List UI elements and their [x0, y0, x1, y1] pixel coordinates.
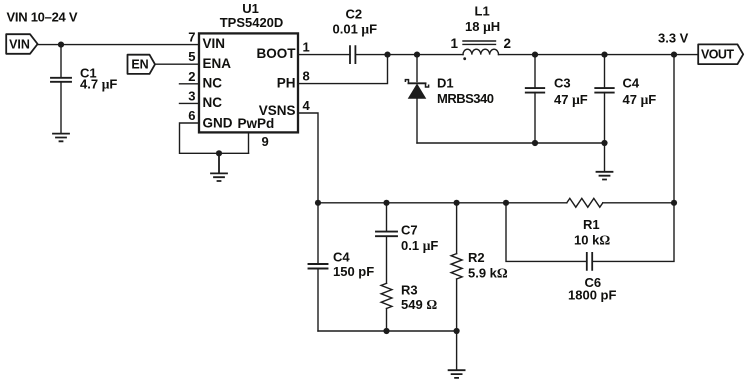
node VOUT junction	[671, 52, 677, 58]
wire VIN to pin 7	[38, 44, 199, 46]
node GND/PwPd junction	[216, 150, 222, 156]
svg-text:0.01 μF: 0.01 μF	[333, 21, 378, 36]
svg-text:C2: C2	[346, 6, 363, 21]
svg-text:PwPd: PwPd	[238, 116, 275, 131]
node rail right end	[671, 200, 677, 206]
node D1 junction	[414, 52, 420, 58]
resistor R3	[381, 283, 392, 308]
pin name VIN	[203, 36, 226, 51]
wire EN to pin 5	[155, 63, 199, 65]
svg-text:5: 5	[188, 49, 195, 64]
svg-text:4: 4	[303, 98, 311, 113]
svg-text:VIN 10–24 V: VIN 10–24 V	[7, 10, 78, 25]
node C4 bottom	[601, 140, 607, 146]
pin stub pin 3 NC	[180, 102, 200, 104]
wire L1 to VOUT	[499, 54, 699, 56]
pin number 4	[303, 98, 311, 113]
node C3 bottom	[532, 140, 538, 146]
inductor L1	[463, 41, 499, 55]
svg-text:VOUT: VOUT	[701, 48, 734, 62]
svg-text:BOOT: BOOT	[257, 46, 297, 61]
wire C2 to inductor	[355, 54, 463, 56]
pin name PwPd	[238, 116, 275, 131]
net label 3.3 V	[658, 30, 689, 45]
capacitor C4 (47uF)	[595, 55, 613, 143]
connector VOUT	[698, 44, 743, 64]
pin number 9	[262, 134, 269, 149]
svg-text:549 Ω: 549 Ω	[401, 297, 437, 312]
pin name ENA	[203, 56, 232, 71]
svg-text:R1: R1	[583, 217, 600, 232]
value label C7 0.1 uF	[401, 223, 438, 253]
wire feedback bottom rail	[318, 330, 457, 332]
svg-text:U1: U1	[242, 1, 259, 16]
pin name NC (pin 2)	[203, 76, 223, 91]
pin number 6	[188, 108, 195, 123]
pin name PH	[277, 75, 296, 90]
connector VIN	[6, 34, 37, 54]
node R3 bottom	[383, 328, 389, 334]
wire PH to junction	[298, 55, 388, 84]
svg-text:5.9 kΩ: 5.9 kΩ	[468, 265, 508, 280]
svg-text:1: 1	[303, 40, 310, 55]
wire C4 bottom to ground	[604, 143, 606, 172]
svg-text:C7: C7	[401, 223, 418, 238]
node BOOT/PH junction	[384, 52, 390, 58]
value label C4 150 pF	[333, 249, 374, 279]
value label C3 47 uF	[554, 75, 588, 107]
ground (R2)	[449, 370, 465, 378]
svg-text:3.3 V: 3.3 V	[658, 30, 689, 45]
value label C2 0.01 uF	[333, 6, 378, 36]
svg-text:10 kΩ: 10 kΩ	[574, 232, 610, 247]
svg-text:8: 8	[303, 69, 310, 84]
capacitor C6	[587, 253, 592, 270]
pin number 3	[188, 88, 195, 103]
svg-text:EN: EN	[131, 58, 148, 72]
part label TPS5420D	[220, 15, 284, 30]
node VSNS rail junction	[315, 200, 321, 206]
pin number 1	[303, 40, 310, 55]
wire R2 junction to ground	[456, 331, 458, 370]
value label D1 MRBS340	[437, 76, 494, 106]
svg-text:9: 9	[262, 134, 269, 149]
svg-text:GND: GND	[203, 115, 233, 130]
node C4 top	[601, 52, 607, 58]
wire pin 6 GND to ground rail	[180, 123, 249, 153]
pin label 1 (L1)	[451, 36, 459, 51]
svg-text:1: 1	[451, 36, 459, 51]
svg-text:VIN: VIN	[203, 36, 226, 51]
capacitor C4 (150 pF)	[309, 203, 328, 331]
capacitor C2	[350, 46, 355, 63]
pin number 8	[303, 69, 310, 84]
svg-text:2: 2	[188, 69, 195, 84]
svg-text:7: 7	[188, 30, 195, 45]
svg-text:C4: C4	[333, 249, 350, 264]
ground (output)	[597, 172, 613, 180]
wire C6 branch left	[506, 203, 587, 262]
svg-text:0.1 μF: 0.1 μF	[401, 238, 438, 253]
value label R2 5.9 kOhm	[468, 250, 508, 280]
value label C1 4.7 uF	[80, 65, 117, 91]
svg-text:47 μF: 47 μF	[623, 92, 657, 107]
node C7 branch top	[383, 200, 389, 206]
net label VIN 10-24 V	[7, 10, 78, 25]
wire VOUT feedback down	[673, 55, 675, 203]
ground (PwPd)	[211, 153, 227, 181]
wire BOOT to C2	[298, 54, 350, 56]
resistor R1	[567, 198, 603, 207]
wire feedback rail right	[603, 202, 674, 204]
pin stub pin 2 NC	[180, 83, 200, 85]
resistor R2	[451, 203, 462, 331]
wire R3 bottom	[386, 309, 388, 332]
value label C6 1800 pF	[568, 275, 616, 303]
node C3 top	[532, 52, 538, 58]
svg-text:MRBS340: MRBS340	[437, 91, 494, 106]
svg-text:R3: R3	[401, 283, 418, 298]
ground (C1)	[53, 134, 69, 142]
value label R3 549 Ohm	[401, 283, 437, 313]
pin name BOOT	[257, 46, 297, 61]
svg-text:NC: NC	[203, 95, 223, 110]
ref label U1	[242, 1, 259, 16]
svg-text:ENA: ENA	[203, 56, 232, 71]
svg-text:R2: R2	[468, 250, 485, 265]
wire output ground rail	[417, 142, 605, 144]
connector EN	[128, 55, 156, 74]
svg-text:C4: C4	[623, 75, 640, 90]
capacitor C7	[376, 203, 397, 283]
node C6/R1 left junction	[503, 200, 509, 206]
pin name GND	[203, 115, 233, 130]
wire D1 cathode	[416, 55, 418, 82]
pin number 7	[188, 30, 195, 45]
pin name NC (pin 3)	[203, 95, 223, 110]
svg-text:NC: NC	[203, 76, 223, 91]
svg-text:6: 6	[188, 108, 195, 123]
pin number 5	[188, 49, 195, 64]
op-amp U1 TPS5420D box	[199, 33, 298, 132]
svg-text:1800 pF: 1800 pF	[568, 288, 616, 303]
svg-text:150 pF: 150 pF	[333, 264, 374, 279]
svg-text:PH: PH	[277, 75, 296, 90]
svg-text:3: 3	[188, 88, 195, 103]
node L1 phase dot	[463, 57, 466, 60]
pin label 2 (L1)	[504, 36, 512, 51]
svg-text:47 μF: 47 μF	[554, 92, 588, 107]
svg-text:C3: C3	[554, 75, 571, 90]
value label L1 18 uH	[465, 3, 500, 34]
value label C4 47 uF	[623, 75, 657, 107]
wire pin 9 PwPd down	[248, 132, 250, 153]
pin number 2	[188, 69, 195, 84]
wire C6 branch right	[592, 203, 674, 262]
wire VSNS to feedback rail	[298, 113, 318, 203]
capacitor C3	[526, 55, 544, 143]
wire feedback rail left	[318, 202, 567, 204]
pin name VSNS	[259, 103, 296, 118]
svg-text:2: 2	[504, 36, 512, 51]
svg-text:L1: L1	[475, 3, 490, 18]
svg-text:D1: D1	[437, 76, 454, 91]
svg-text:4.7 μF: 4.7 μF	[80, 76, 117, 91]
node C1/VIN junction	[58, 42, 64, 48]
svg-text:18 μH: 18 μH	[465, 19, 500, 34]
node R2 bottom	[454, 328, 460, 334]
svg-text:VIN: VIN	[9, 38, 30, 52]
value label R1 10 kOhm	[574, 217, 610, 247]
svg-text:TPS5420D: TPS5420D	[220, 15, 284, 30]
capacitor C1	[51, 45, 71, 134]
diode D1 (schottky)	[405, 80, 428, 143]
node R2 top	[454, 200, 460, 206]
